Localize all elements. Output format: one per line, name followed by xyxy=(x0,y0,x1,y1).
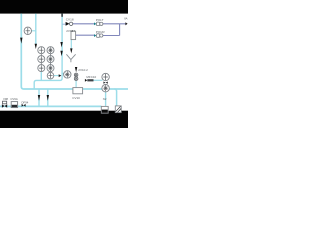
right valve circle lower (on manifold) xyxy=(102,85,109,92)
svg-text:2V18: 2V18 xyxy=(66,29,73,33)
wire: MFC outlet line to right valve circle xyxy=(93,79,102,81)
svg-text:2V10.2: 2V10.2 xyxy=(78,68,88,72)
small valve chain circle 1 (2V10.2) xyxy=(74,73,78,77)
flow arrow column2 outlet xyxy=(59,74,62,77)
valve V1-2 column1 xyxy=(38,56,45,63)
wire: CV18 output line (navy) xyxy=(73,23,95,25)
canister 1 (half filled) xyxy=(101,106,108,113)
small bowtie between right circles xyxy=(103,82,105,84)
valve DF94 bowtie xyxy=(22,104,24,107)
POLT inlet arrow (teal) xyxy=(94,22,96,25)
svg-text:CV18: CV18 xyxy=(66,17,74,21)
svg-text:V98: V98 xyxy=(3,97,8,101)
flow arrow on MFC chain xyxy=(75,67,77,72)
wire: canister drop 2 with elbow into manifold xyxy=(114,89,116,106)
flow arrow on vent drain xyxy=(70,48,72,53)
wire: stub from line 3 to mid valve xyxy=(62,73,64,75)
valve V2-4 column2 xyxy=(47,72,54,79)
valve mid (x=67.1) xyxy=(64,71,71,78)
svg-text:CV9A: CV9A xyxy=(10,97,17,101)
wire: stub to valve circle at x=31 xyxy=(31,30,36,32)
svg-text:MFC10: MFC10 xyxy=(86,75,96,79)
svg-text:DF94: DF94 xyxy=(22,100,29,104)
regulator 2V18 box xyxy=(71,31,76,39)
right valve circle upper xyxy=(102,73,109,80)
svg-text:POUR: POUR xyxy=(96,30,106,34)
valve V1-3 column1 xyxy=(38,65,45,72)
wire: stick line of valve column 2 xyxy=(50,50,52,76)
check valve CV18 xyxy=(66,22,70,26)
svg-text:CV10: CV10 xyxy=(72,96,80,100)
svg-text:POLT: POLT xyxy=(96,18,104,22)
wire: column 1 down to bottom pipe xyxy=(40,71,42,81)
top black band xyxy=(0,0,128,14)
MFC inlet arrow xyxy=(85,79,87,82)
wire: POLT output + junction vertical + exit (navy) xyxy=(103,24,126,36)
wire: column 2 outlet stub to line 3 xyxy=(54,75,59,77)
exit arrow at right edge xyxy=(125,22,127,25)
wire: bottom pipe xyxy=(0,105,101,107)
wire: regulator 2V18 output line (navy) xyxy=(76,34,95,36)
valve V1-1 column1 xyxy=(38,47,45,54)
flow arrow on drop 2 xyxy=(47,95,49,101)
wire: MFC chain line into MFC box xyxy=(75,80,77,88)
node: dark cap on line 3 top xyxy=(61,14,63,17)
bottom black band xyxy=(0,111,128,128)
flow arrow on line 2 xyxy=(35,44,37,49)
flow arrow on line 1 xyxy=(20,38,22,44)
flow arrow b on line 3 xyxy=(60,51,62,56)
wire: canister drop 1 xyxy=(105,91,107,106)
wire: drop 2 from manifold to bottom pipe xyxy=(39,89,48,106)
POLT regulator xyxy=(97,22,100,26)
MFC box xyxy=(73,88,83,94)
valve V98 bowtie xyxy=(2,104,5,108)
wire: supply line 3 (x=62.1) elbow into upper pipe to left elbow down xyxy=(34,14,62,89)
POUR regulator xyxy=(97,34,100,38)
flow arrow a on line 3 xyxy=(60,42,62,47)
svg-text:VA: VA xyxy=(124,17,128,21)
small valve chain circle 2 xyxy=(74,77,78,81)
canister 2 (hatched) xyxy=(115,106,121,113)
valve CV9A box xyxy=(11,102,17,108)
wire: supply line 1 (x=21.3) joining main manifold y=88.2 xyxy=(21,14,128,89)
valve V98 actuator box xyxy=(3,101,7,104)
svg-text:N2: N2 xyxy=(103,97,107,101)
flow arrow on drop 1 xyxy=(38,95,40,101)
valve V2-1 column2 xyxy=(47,47,54,54)
valve V2-3 column2 xyxy=(47,65,54,72)
valve V2-2 column2 xyxy=(47,56,54,63)
wire: supply line 2 (x=35.8) xyxy=(35,14,37,44)
vent funnel xyxy=(66,54,75,62)
MFC body bar xyxy=(87,79,93,81)
background xyxy=(0,0,128,128)
valve circle near top (x=27.6) xyxy=(24,27,31,34)
wire: vent drain from regulator 2V18 xyxy=(70,40,72,49)
wire: CV18 tee stub xyxy=(62,23,66,25)
wire: stick line of valve column 1 xyxy=(40,50,42,72)
wire: POUR output line (navy) xyxy=(103,35,120,37)
POUR inlet arrow (teal) xyxy=(94,34,96,37)
